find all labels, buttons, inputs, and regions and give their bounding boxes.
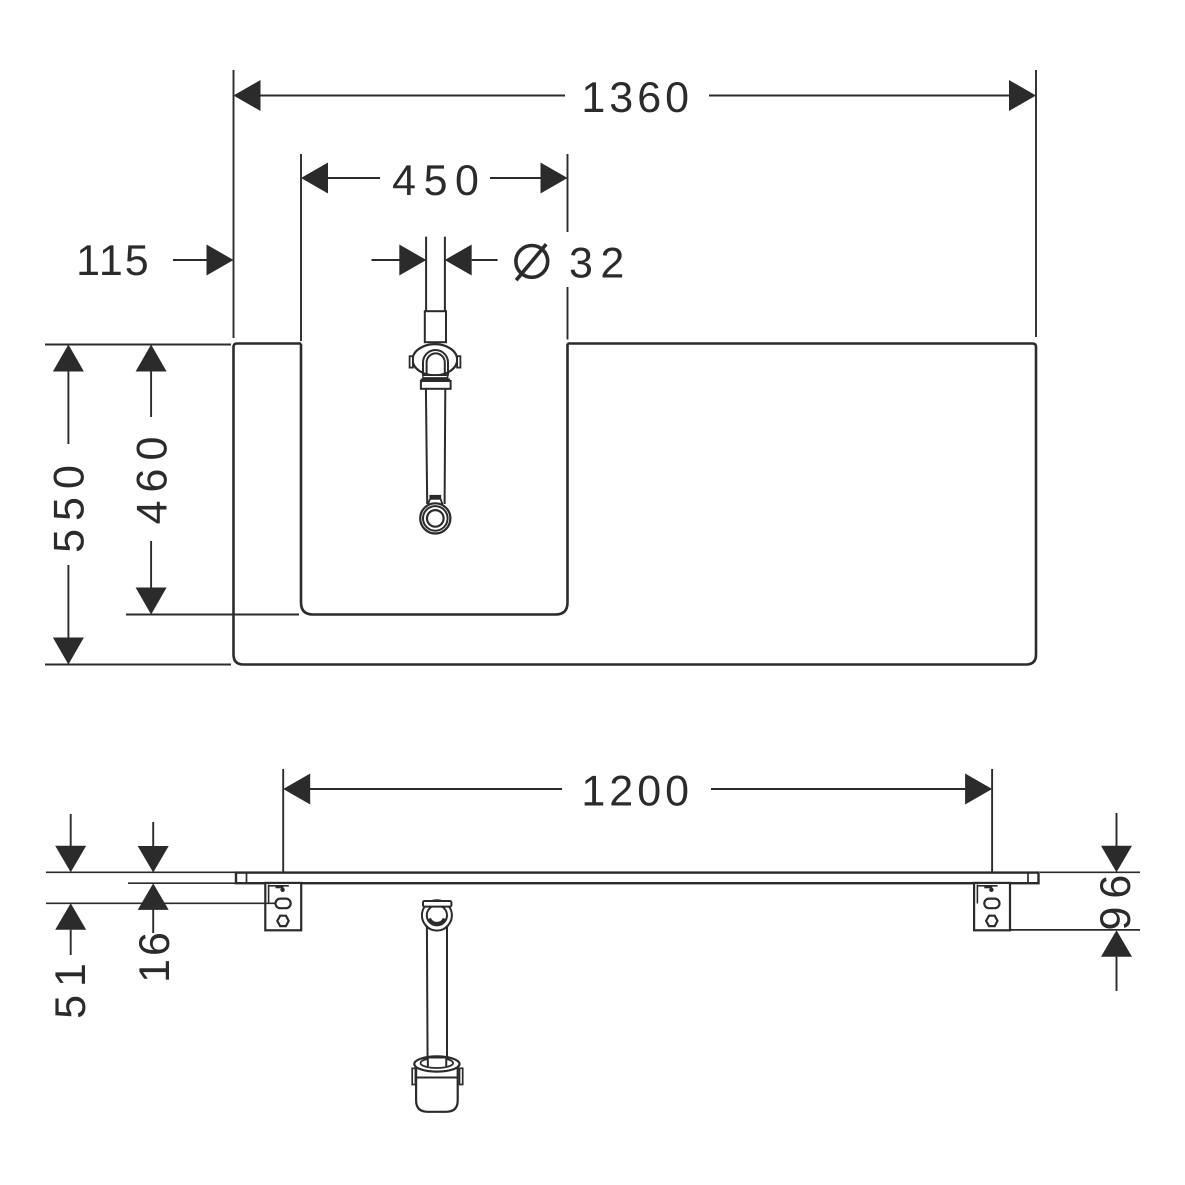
trap ring shaded lower arc	[429, 919, 444, 924]
reference line left bottom-of-slab	[128, 882, 236, 884]
drain outlet middle circle	[423, 506, 448, 531]
dimension 460 shafts	[150, 371, 152, 588]
left bracket dot	[280, 888, 284, 892]
dimension 51 shafts	[70, 814, 72, 955]
arrowhead d32 left	[399, 245, 426, 276]
arrowhead 51 down	[55, 846, 86, 873]
trap tube edges	[427, 927, 447, 1067]
extension line 550 bottom	[45, 664, 231, 666]
dimension line 115	[173, 259, 207, 261]
coupling band upper	[423, 375, 448, 379]
dimension line 1360	[260, 95, 1010, 97]
washbasin outer outline	[234, 344, 1037, 665]
overflow body oval	[413, 344, 458, 375]
svg-text:450: 450	[392, 157, 486, 205]
cup left tab	[412, 1068, 415, 1084]
dimension 16 shafts	[152, 822, 154, 933]
oval right tab	[457, 356, 460, 367]
reference line 51 (slot level)	[46, 902, 276, 904]
drain outlet inner circle	[427, 510, 444, 527]
arrowhead 460 bottom	[136, 588, 167, 615]
cup right tab	[460, 1068, 463, 1084]
extension line 1200 left	[282, 769, 284, 872]
reference line left top	[46, 871, 236, 873]
right mounting bracket	[974, 883, 1010, 930]
dimension line diameter 32 left	[372, 259, 400, 261]
arrowhead 1360 left	[234, 80, 261, 111]
trap ring bottom arc over tube	[425, 925, 448, 930]
drain clip	[430, 495, 441, 499]
svg-text:51: 51	[47, 955, 95, 1019]
label diameter 32	[516, 244, 548, 280]
arrowhead 96 up	[1101, 930, 1132, 957]
extension line 450 left	[300, 154, 302, 341]
right bracket clamp mark	[984, 885, 992, 888]
arrowhead 51 up	[55, 903, 86, 930]
arrowhead 550 bottom	[53, 638, 84, 665]
drain pipe top view	[426, 388, 445, 504]
inner basin outline	[301, 344, 568, 615]
overflow U-tube inner	[427, 353, 445, 375]
trap ring outer	[422, 900, 452, 930]
drain outlet outer circle	[420, 503, 450, 533]
arrowhead d32 right	[445, 245, 472, 276]
svg-text:115: 115	[76, 237, 151, 285]
trap tube lower edges	[428, 1056, 447, 1066]
right bracket hex nut	[986, 916, 997, 926]
arrowhead 460 top	[136, 345, 167, 372]
right bracket flange	[977, 885, 997, 904]
svg-text:1200: 1200	[581, 768, 693, 816]
dimension line 450	[328, 177, 541, 179]
trap flange bar	[423, 901, 451, 907]
arrowhead 96 down	[1101, 846, 1132, 873]
reference line right top	[1040, 871, 1140, 873]
left bracket hex nut	[277, 916, 288, 926]
left bracket clamp mark	[276, 885, 284, 888]
trap tube	[427, 927, 447, 1067]
dimension 96 shafts	[1116, 813, 1118, 991]
trap cup rim	[414, 1056, 459, 1071]
faucet pipe top view	[426, 237, 445, 311]
extension line 1360 left	[233, 70, 235, 338]
svg-text:96: 96	[1092, 867, 1140, 931]
slab right end divider	[1027, 873, 1029, 884]
svg-text:550: 550	[46, 457, 94, 553]
arrowhead 450 left	[301, 163, 328, 194]
coupling dark strip 2	[421, 379, 449, 381]
arrowhead 1200 right	[965, 774, 992, 805]
extension line 1360 right	[1035, 70, 1037, 337]
extension line 550/460 top	[45, 344, 231, 346]
svg-text:460: 460	[128, 429, 176, 525]
trap cup clamp line	[416, 1077, 457, 1079]
countertop slab	[236, 873, 1039, 884]
drain clip sides	[428, 499, 443, 504]
left mounting bracket	[265, 883, 301, 930]
extension line 1200 right	[991, 769, 993, 872]
right bracket dot	[989, 888, 993, 892]
trap cup body	[416, 1062, 458, 1112]
dimension 550 shafts	[67, 371, 69, 638]
arrowhead 16 down	[138, 846, 169, 873]
arrowhead 450 right	[541, 163, 568, 194]
right bracket slot	[984, 899, 999, 909]
trap ring inner	[427, 905, 447, 925]
left bracket flange	[269, 885, 289, 904]
svg-text:1360: 1360	[581, 74, 693, 122]
extension line 450 right	[567, 154, 569, 340]
svg-text:32: 32	[569, 239, 632, 287]
trap cup opening ellipse	[421, 1058, 454, 1068]
svg-text:16: 16	[131, 929, 179, 983]
overflow U-tube outer	[423, 350, 448, 376]
extension line 460 bottom	[126, 614, 299, 616]
reference line right bracket bottom	[1011, 929, 1140, 931]
oval left tab	[410, 356, 413, 367]
arrowhead 550 top	[53, 345, 84, 372]
arrowhead 1200 left	[283, 774, 310, 805]
coupling band line	[424, 376, 447, 378]
trap tube into cup	[428, 1059, 446, 1067]
dimension line diameter 32 right	[472, 259, 498, 261]
left bracket slot	[276, 899, 291, 909]
arrowhead 115	[207, 245, 234, 276]
pipe collar	[425, 311, 446, 342]
arrowhead 16 up	[138, 883, 169, 910]
dimension line 1200	[310, 788, 965, 790]
arrowhead 1360 right	[1009, 80, 1036, 111]
coupling band lower	[421, 381, 451, 389]
slab left end divider	[246, 873, 248, 884]
